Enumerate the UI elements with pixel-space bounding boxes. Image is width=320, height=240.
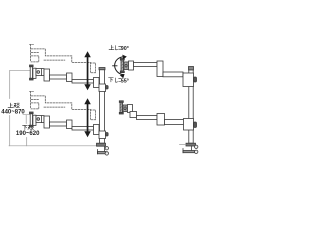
上	[109, 45, 114, 50]
bracket	[129, 61, 134, 70]
upper arm solid	[30, 65, 109, 92]
elbow	[157, 61, 163, 77]
pole collar	[99, 84, 106, 92]
step block	[130, 112, 137, 118]
text down 55	[109, 78, 122, 83]
clamp under desk	[104, 146, 106, 151]
dimension leader lower	[23, 115, 30, 146]
bracket	[128, 105, 133, 113]
clamp	[191, 146, 193, 151]
elbow	[157, 114, 165, 126]
svg-text:90°: 90°	[121, 46, 129, 52]
hinge	[124, 62, 129, 70]
arm bar 1	[50, 75, 67, 79]
下	[109, 78, 114, 82]
upper arm right	[120, 59, 196, 87]
elbow 2	[94, 78, 100, 88]
lower arm right	[119, 101, 196, 130]
collar	[184, 119, 194, 131]
bar 1	[137, 116, 158, 120]
svg-text:190~620: 190~620	[16, 131, 40, 137]
lower dashed raised outline	[30, 92, 96, 120]
pole	[97, 68, 109, 156]
flange	[186, 143, 196, 146]
riser block	[44, 69, 50, 81]
desk line	[9, 145, 97, 147]
text up 90	[109, 45, 121, 50]
elbow	[67, 73, 73, 82]
vesa plate	[30, 65, 34, 67]
lower arm solid	[30, 112, 109, 139]
collar	[183, 73, 194, 87]
bar 2	[165, 120, 185, 125]
下	[23, 125, 28, 129]
svg-text:440~870: 440~870	[1, 109, 25, 115]
bracket	[33, 68, 36, 78]
vesa plate side	[119, 101, 123, 103]
vesa plate side	[120, 59, 124, 61]
lower height arrow	[84, 98, 91, 137]
upper dashed raised outline	[30, 45, 96, 73]
段	[14, 103, 20, 108]
upper height arrow	[84, 51, 91, 90]
dimension leader upper (gray)	[9, 70, 97, 146]
svg-text:55°: 55°	[121, 79, 129, 85]
上	[8, 103, 13, 108]
tilt joint	[36, 69, 44, 76]
text upper label	[8, 103, 19, 108]
text lower label	[23, 125, 34, 130]
段	[28, 125, 34, 130]
bar 2	[163, 72, 183, 77]
hinge	[123, 105, 128, 112]
に	[116, 78, 122, 82]
desk tick	[180, 144, 187, 146]
base flange	[97, 143, 106, 146]
に	[116, 46, 122, 50]
bar 1	[134, 63, 158, 67]
tilt arc arrow	[113, 57, 126, 75]
pole right	[180, 67, 198, 154]
arm bar 2	[72, 80, 94, 84]
